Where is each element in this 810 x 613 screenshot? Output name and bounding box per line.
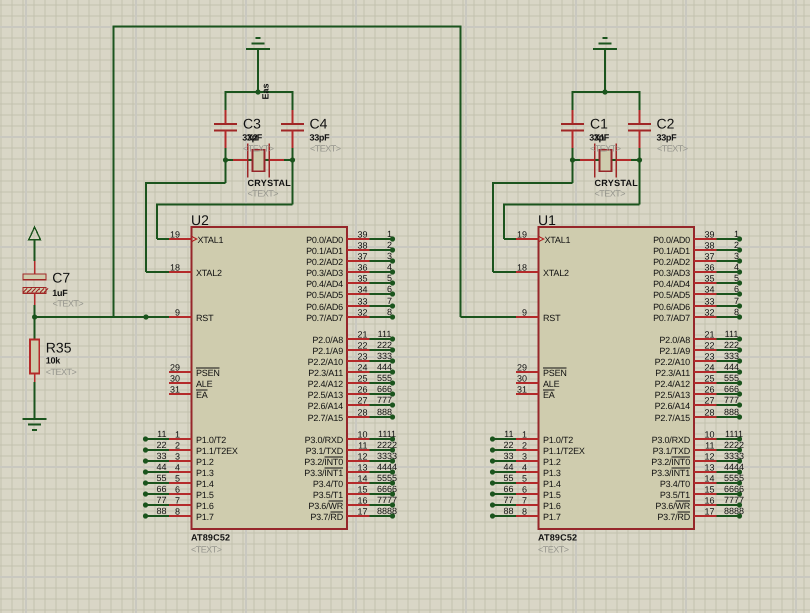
svg-text:P2.6/A14: P2.6/A14	[655, 401, 691, 411]
svg-text:P0.1/AD1: P0.1/AD1	[653, 246, 690, 256]
svg-text:29: 29	[170, 363, 180, 373]
svg-text:2222: 2222	[724, 440, 744, 450]
svg-text:<TEXT>: <TEXT>	[243, 144, 274, 154]
svg-text:<TEXT>: <TEXT>	[595, 188, 626, 198]
svg-text:27: 27	[704, 396, 714, 406]
svg-text:31: 31	[170, 385, 180, 395]
U1 pin 4 P1.3 with wire net 44	[490, 462, 561, 478]
wire C4 to crystal row	[292, 148, 294, 161]
svg-text:55: 55	[503, 473, 513, 483]
wire RST riser right (to U1)	[460, 26, 462, 318]
wire down to XTAL2 row (U2)	[145, 182, 147, 272]
svg-text:5: 5	[734, 273, 739, 283]
svg-text:888: 888	[377, 407, 392, 417]
svg-text:P0.6/AD6: P0.6/AD6	[306, 302, 343, 312]
svg-text:12: 12	[357, 452, 367, 462]
svg-text:7: 7	[734, 296, 739, 306]
wire down to XTAL1 row (U1)	[503, 204, 505, 240]
svg-text:777: 777	[377, 395, 392, 405]
svg-text:XTAL1: XTAL1	[545, 235, 571, 245]
U1 pin 28 P2.7/A15 with wire net 888	[655, 407, 743, 423]
wire down to C2	[639, 91, 641, 110]
svg-text:555: 555	[724, 373, 739, 383]
svg-text:P3.7/RD: P3.7/RD	[657, 512, 690, 522]
svg-text:4444: 4444	[724, 462, 744, 472]
svg-text:37: 37	[357, 252, 367, 262]
svg-text:P1.2: P1.2	[196, 457, 214, 467]
U2 pin 6 P1.5 with wire net 66	[143, 484, 214, 500]
svg-text:33pF: 33pF	[310, 133, 331, 143]
svg-text:C2: C2	[657, 116, 675, 132]
svg-text:888: 888	[724, 407, 739, 417]
U2 pin 8 P1.7 with wire net 88	[143, 506, 214, 522]
svg-text:P0.3/AD3: P0.3/AD3	[306, 268, 343, 278]
U1 pin 9 RST	[516, 308, 561, 324]
svg-text:17: 17	[357, 507, 367, 517]
svg-text:P2.7/A15: P2.7/A15	[308, 413, 344, 423]
svg-text:8: 8	[175, 507, 180, 517]
svg-text:CRYSTAL: CRYSTAL	[248, 178, 292, 188]
wire top rail between C1 and C2	[573, 91, 640, 93]
microcontroller U1 AT89C52 body	[539, 227, 695, 529]
svg-text:88: 88	[503, 506, 513, 516]
svg-text:P0.3/AD3: P0.3/AD3	[653, 268, 690, 278]
U1 pin 16 P3.6/WR with wire net 7777	[655, 495, 744, 511]
svg-text:10: 10	[704, 430, 714, 440]
svg-text:P0.5/AD5: P0.5/AD5	[653, 290, 690, 300]
svg-text:C3: C3	[243, 116, 261, 132]
svg-text:8888: 8888	[377, 506, 397, 516]
svg-text:77: 77	[503, 495, 513, 505]
svg-text:P1.3: P1.3	[196, 468, 214, 478]
wire RST top rail	[114, 26, 461, 28]
svg-text:222: 222	[377, 340, 392, 350]
svg-text:3: 3	[387, 251, 392, 261]
wire RST horizontal to U2	[35, 316, 170, 318]
U1 pin 38 P0.1/AD1 with wire net 2	[653, 240, 742, 256]
svg-text:11: 11	[705, 441, 714, 451]
U1 pin 15 P3.5/T1 with wire net 6666	[660, 484, 744, 500]
svg-text:36: 36	[704, 263, 714, 273]
svg-text:66: 66	[503, 484, 513, 494]
wire C3 junction down (U2 XTAL2 net)	[225, 160, 227, 183]
svg-text:P2.5/A13: P2.5/A13	[308, 390, 344, 400]
U1 pin 27 P2.6/A14 with wire net 777	[655, 395, 743, 411]
svg-text:1: 1	[734, 229, 739, 239]
wire RST horizontal to U1	[461, 316, 517, 318]
capacitor C7 (electrolytic)	[23, 261, 48, 305]
svg-text:P1.1/T2EX: P1.1/T2EX	[196, 446, 238, 456]
U2 pin 13 P3.3/INT1 with wire net 4444	[304, 462, 397, 478]
svg-text:33: 33	[156, 451, 166, 461]
svg-text:23: 23	[357, 352, 367, 362]
svg-text:P1.4: P1.4	[196, 479, 214, 489]
svg-text:P0.0/AD0: P0.0/AD0	[306, 235, 343, 245]
wire into XTAL1 pin (U1)	[504, 238, 517, 240]
U2 pin 16 P3.6/WR with wire net 7777	[308, 495, 397, 511]
U1 pin 5 P1.4 with wire net 55	[490, 473, 561, 489]
U1 pin 35 P0.4/AD4 with wire net 5	[653, 273, 742, 289]
ground above crystal of U1	[593, 38, 617, 49]
U2 pin 7 P1.6 with wire net 77	[143, 495, 214, 511]
U2 pin 28 P2.7/A15 with wire net 888	[308, 407, 396, 423]
svg-text:X2: X2	[247, 133, 258, 143]
capacitor C2	[628, 110, 651, 148]
svg-text:555: 555	[377, 373, 392, 383]
svg-text:19: 19	[517, 230, 527, 240]
svg-text:<TEXT>: <TEXT>	[590, 144, 621, 154]
svg-text:22: 22	[156, 440, 166, 450]
svg-text:6: 6	[734, 284, 739, 294]
svg-text:33: 33	[357, 297, 367, 307]
svg-text:1: 1	[387, 229, 392, 239]
U1 pin 12 P3.2/INT0 with wire net 3333	[651, 451, 744, 467]
svg-text:13: 13	[704, 463, 714, 473]
resistor R35	[30, 317, 39, 382]
svg-text:31: 31	[517, 385, 527, 395]
node crystal-top junction U2	[255, 89, 260, 94]
svg-text:5: 5	[387, 273, 392, 283]
svg-text:CRYSTAL: CRYSTAL	[595, 178, 639, 188]
U2 pin 5 P1.4 with wire net 55	[143, 473, 214, 489]
svg-text:<TEXT>: <TEXT>	[191, 545, 222, 555]
svg-text:P3.2/INT0: P3.2/INT0	[651, 457, 690, 467]
node C7/R35/RST junction	[32, 314, 37, 319]
svg-text:21: 21	[357, 330, 367, 340]
svg-text:777: 777	[724, 395, 739, 405]
svg-text:<TEXT>: <TEXT>	[53, 299, 84, 309]
svg-text:4: 4	[734, 262, 739, 272]
svg-text:<TEXT>: <TEXT>	[248, 188, 279, 198]
svg-text:11: 11	[157, 429, 166, 439]
svg-text:Eas: Eas	[261, 83, 271, 99]
svg-text:P1.2: P1.2	[543, 457, 561, 467]
U1 pin 19 XTAL1	[516, 230, 571, 246]
U2 pin 14 P3.4/T0 with wire net 5555	[313, 473, 397, 489]
svg-text:111: 111	[378, 329, 392, 339]
svg-text:P3.5/T1: P3.5/T1	[313, 490, 343, 500]
svg-text:33pF: 33pF	[657, 133, 678, 143]
svg-text:2: 2	[175, 441, 180, 451]
svg-text:P2.1/A9: P2.1/A9	[659, 346, 690, 356]
svg-text:2: 2	[387, 240, 392, 250]
svg-text:EA: EA	[196, 390, 208, 400]
U1 pin 2 P1.1/T2EX with wire net 22	[490, 440, 585, 456]
svg-text:3: 3	[734, 251, 739, 261]
crystal X1 (U1)	[580, 144, 631, 178]
svg-text:R35: R35	[46, 340, 72, 356]
svg-text:C7: C7	[52, 270, 70, 286]
svg-text:6: 6	[522, 485, 527, 495]
wire C3 to crystal row	[225, 148, 227, 161]
svg-text:8: 8	[387, 307, 392, 317]
U1 pin 14 P3.4/T0 with wire net 5555	[660, 473, 744, 489]
svg-text:P3.7/RD: P3.7/RD	[310, 512, 343, 522]
svg-text:P1.5: P1.5	[196, 490, 214, 500]
U2 pin 26 P2.5/A13 with wire net 666	[308, 384, 396, 400]
svg-text:3: 3	[522, 452, 527, 462]
svg-text:C1: C1	[590, 116, 608, 132]
svg-text:44: 44	[503, 462, 513, 472]
svg-text:36: 36	[357, 263, 367, 273]
capacitor C1	[561, 110, 584, 148]
svg-text:U1: U1	[538, 212, 556, 228]
svg-text:P1.0/T2: P1.0/T2	[543, 435, 573, 445]
svg-text:9: 9	[522, 308, 527, 318]
svg-text:222: 222	[724, 340, 739, 350]
U2 pin 27 P2.6/A14 with wire net 777	[308, 395, 396, 411]
U2 pin 9 RST	[169, 308, 214, 324]
svg-text:P0.6/AD6: P0.6/AD6	[653, 302, 690, 312]
svg-text:P1.0/T2: P1.0/T2	[196, 435, 226, 445]
U2 pin 4 P1.3 with wire net 44	[143, 462, 214, 478]
svg-text:35: 35	[357, 274, 367, 284]
svg-text:30: 30	[517, 374, 527, 384]
wire down to XTAL1 row (U2)	[156, 204, 158, 240]
svg-text:11: 11	[504, 429, 513, 439]
wire crystal row U1	[573, 159, 640, 161]
svg-text:P2.0/A8: P2.0/A8	[659, 335, 690, 345]
svg-text:P1.6: P1.6	[543, 501, 561, 511]
U1 pin 11 P3.1/TXD with wire net 2222	[653, 440, 744, 456]
wire arrow to C7	[34, 240, 36, 261]
U2 pin 31 EA	[169, 385, 208, 401]
svg-text:12: 12	[704, 452, 714, 462]
svg-text:13: 13	[357, 463, 367, 473]
svg-text:P1.7: P1.7	[543, 512, 561, 522]
svg-text:77: 77	[156, 495, 166, 505]
svg-text:P0.7/AD7: P0.7/AD7	[653, 313, 690, 323]
label C1 value 33pF overlapped with X1	[589, 133, 610, 143]
node C1-crystal junction	[570, 157, 575, 162]
svg-text:P2.3/A11: P2.3/A11	[655, 368, 690, 378]
svg-text:34: 34	[357, 285, 367, 295]
U2 pin 33 P0.6/AD6 with wire net 7	[306, 296, 395, 312]
svg-text:<TEXT>: <TEXT>	[310, 144, 341, 154]
wire C1 junction down (U1 XTAL2 net)	[572, 160, 574, 183]
wire C2 to crystal row	[639, 148, 641, 161]
label C3 value 33pF overlapped with X2	[242, 133, 263, 143]
svg-text:ALE: ALE	[196, 379, 213, 389]
svg-text:30: 30	[170, 374, 180, 384]
svg-text:15: 15	[704, 485, 714, 495]
svg-text:P3.4/T0: P3.4/T0	[313, 479, 343, 489]
U2 pin 21 P2.0/A8 with wire net 111	[312, 329, 395, 345]
svg-text:P2.0/A8: P2.0/A8	[312, 335, 343, 345]
svg-text:7: 7	[387, 296, 392, 306]
svg-text:P3.4/T0: P3.4/T0	[660, 479, 690, 489]
wire RST riser left	[113, 26, 115, 318]
svg-text:P1.1/T2EX: P1.1/T2EX	[543, 446, 585, 456]
svg-text:4: 4	[387, 262, 392, 272]
wire left along y=204.5 (U2 XTAL1 net)	[157, 204, 293, 206]
wire C7 to RST node	[34, 305, 36, 318]
capacitor C3	[214, 110, 237, 148]
U1 pin 7 P1.6 with wire net 77	[490, 495, 561, 511]
svg-text:39: 39	[704, 230, 714, 240]
svg-text:35: 35	[704, 274, 714, 284]
svg-text:U2: U2	[191, 212, 209, 228]
svg-text:P2.2/A10: P2.2/A10	[308, 357, 344, 367]
svg-text:RST: RST	[543, 313, 561, 323]
svg-text:P0.5/AD5: P0.5/AD5	[306, 290, 343, 300]
U1 pin 36 P0.3/AD3 with wire net 4	[653, 262, 742, 278]
U1 pin 3 P1.2 with wire net 33	[490, 451, 561, 467]
U2 pin 3 P1.2 with wire net 33	[143, 451, 214, 467]
U2 pin 23 P2.2/A10 with wire net 333	[308, 351, 396, 367]
svg-text:666: 666	[377, 384, 392, 394]
svg-text:AT89C52: AT89C52	[538, 533, 577, 543]
svg-text:16: 16	[357, 496, 367, 506]
svg-text:2: 2	[734, 240, 739, 250]
svg-text:333: 333	[724, 351, 739, 361]
svg-text:1uF: 1uF	[52, 288, 68, 298]
svg-text:55: 55	[156, 473, 166, 483]
svg-text:23: 23	[704, 352, 714, 362]
svg-text:P0.2/AD2: P0.2/AD2	[653, 257, 690, 267]
svg-text:6666: 6666	[724, 484, 744, 494]
capacitor C4	[281, 110, 304, 148]
U1 pin 23 P2.2/A10 with wire net 333	[655, 351, 743, 367]
svg-text:38: 38	[357, 241, 367, 251]
svg-text:<TEXT>: <TEXT>	[657, 144, 688, 154]
svg-text:444: 444	[377, 362, 392, 372]
svg-text:5: 5	[522, 474, 527, 484]
svg-text:22: 22	[357, 341, 367, 351]
svg-text:AT89C52: AT89C52	[191, 533, 230, 543]
svg-text:33: 33	[704, 297, 714, 307]
svg-text:1111: 1111	[725, 429, 743, 439]
U2 pin 12 P3.2/INT0 with wire net 3333	[304, 451, 397, 467]
svg-text:XTAL1: XTAL1	[198, 235, 224, 245]
svg-text:PSEN: PSEN	[196, 368, 220, 378]
svg-text:XTAL2: XTAL2	[543, 268, 569, 278]
ground below R35	[23, 419, 47, 430]
microcontroller U2 AT89C52 body	[192, 227, 348, 529]
svg-text:19: 19	[170, 230, 180, 240]
svg-text:1111: 1111	[378, 429, 396, 439]
power arrow symbol (top of C7)	[29, 227, 41, 240]
svg-text:28: 28	[357, 408, 367, 418]
svg-text:6: 6	[387, 284, 392, 294]
wire ground to junction (U1 crystal net)	[604, 49, 606, 92]
svg-text:XTAL2: XTAL2	[196, 268, 222, 278]
U2 pin 17 P3.7/RD with wire net 8888	[310, 506, 397, 522]
svg-text:EA: EA	[543, 390, 555, 400]
crystal X2 (U2)	[233, 144, 284, 178]
U1 pin 8 P1.7 with wire net 88	[490, 506, 561, 522]
wire left along y=183 (U1 XTAL2 net)	[493, 182, 573, 184]
svg-text:P2.6/A14: P2.6/A14	[308, 401, 344, 411]
svg-text:2: 2	[522, 441, 527, 451]
svg-text:2222: 2222	[377, 440, 397, 450]
node C3-crystal junction	[223, 157, 228, 162]
wire ground to junction (U2 crystal net)	[257, 49, 259, 92]
svg-text:1: 1	[175, 430, 180, 440]
svg-text:P2.2/A10: P2.2/A10	[655, 357, 691, 367]
svg-text:1: 1	[522, 430, 527, 440]
U2 pin 2 P1.1/T2EX with wire net 22	[143, 440, 238, 456]
svg-text:P2.1/A9: P2.1/A9	[312, 346, 343, 356]
svg-text:7: 7	[522, 496, 527, 506]
svg-text:10k: 10k	[46, 356, 61, 366]
U2 pin 37 P0.2/AD2 with wire net 3	[306, 251, 395, 267]
svg-text:27: 27	[357, 396, 367, 406]
svg-text:3333: 3333	[724, 451, 744, 461]
wire C4 junction down (U2 XTAL1 net)	[292, 160, 294, 205]
U1 pin 6 P1.5 with wire net 66	[490, 484, 561, 500]
svg-text:P3.5/T1: P3.5/T1	[660, 490, 690, 500]
svg-text:6666: 6666	[377, 484, 397, 494]
svg-text:P0.0/AD0: P0.0/AD0	[653, 235, 690, 245]
svg-text:P2.4/A12: P2.4/A12	[308, 379, 344, 389]
svg-text:P3.3/INT1: P3.3/INT1	[304, 468, 343, 478]
svg-text:6: 6	[175, 485, 180, 495]
U1 pin 22 P2.1/A9 with wire net 222	[659, 340, 742, 356]
wire left along y=183 (U2 XTAL2 net)	[146, 182, 226, 184]
U2 pin 38 P0.1/AD1 with wire net 2	[306, 240, 395, 256]
U2 pin 32 P0.7/AD7 with wire net 8	[306, 307, 395, 323]
wire down to C4	[292, 91, 294, 110]
wire C1 to crystal row	[572, 148, 574, 161]
U2 pin 29 PSEN	[169, 363, 220, 379]
svg-text:18: 18	[170, 263, 180, 273]
svg-text:P2.7/A15: P2.7/A15	[655, 413, 691, 423]
svg-text:P0.4/AD4: P0.4/AD4	[653, 279, 690, 289]
svg-text:111: 111	[725, 329, 739, 339]
svg-text:PSEN: PSEN	[543, 368, 567, 378]
svg-text:5555: 5555	[377, 473, 397, 483]
svg-text:P3.6/WR: P3.6/WR	[308, 501, 343, 511]
wire into XTAL2 pin (U1)	[493, 271, 517, 273]
U1 pin 31 EA	[516, 385, 555, 401]
U2 pin 35 P0.4/AD4 with wire net 5	[306, 273, 395, 289]
svg-text:33: 33	[503, 451, 513, 461]
svg-text:7777: 7777	[377, 495, 397, 505]
wire left along y=204.5 (U1 XTAL1 net)	[504, 204, 640, 206]
wire crystal row U2	[226, 159, 293, 161]
wire C2 junction down (U1 XTAL1 net)	[639, 160, 641, 205]
svg-text:P2.4/A12: P2.4/A12	[655, 379, 691, 389]
svg-text:P1.7: P1.7	[196, 512, 214, 522]
svg-text:X1: X1	[594, 133, 605, 143]
svg-text:25: 25	[357, 374, 367, 384]
svg-text:25: 25	[704, 374, 714, 384]
svg-text:16: 16	[704, 496, 714, 506]
svg-text:4: 4	[175, 463, 180, 473]
U1 pin 37 P0.2/AD2 with wire net 3	[653, 251, 742, 267]
wire into XTAL2 pin (U2)	[146, 271, 170, 273]
node C4-crystal junction	[290, 157, 295, 162]
svg-text:37: 37	[704, 252, 714, 262]
U1 pin 30 ALE	[516, 374, 560, 390]
svg-text:P1.3: P1.3	[543, 468, 561, 478]
svg-text:22: 22	[503, 440, 513, 450]
svg-text:4444: 4444	[377, 462, 397, 472]
U2 pin 34 P0.5/AD5 with wire net 6	[306, 284, 395, 300]
wire into XTAL1 pin (U2)	[157, 238, 170, 240]
svg-text:4: 4	[522, 463, 527, 473]
wire down to C1	[572, 91, 574, 110]
svg-text:P3.2/INT0: P3.2/INT0	[304, 457, 343, 467]
node extra junction on RST wire	[143, 314, 148, 319]
svg-text:18: 18	[517, 263, 527, 273]
svg-text:39: 39	[357, 230, 367, 240]
svg-text:333: 333	[377, 351, 392, 361]
svg-text:10: 10	[357, 430, 367, 440]
U1 pin 29 PSEN	[516, 363, 567, 379]
svg-text:32: 32	[357, 308, 367, 318]
